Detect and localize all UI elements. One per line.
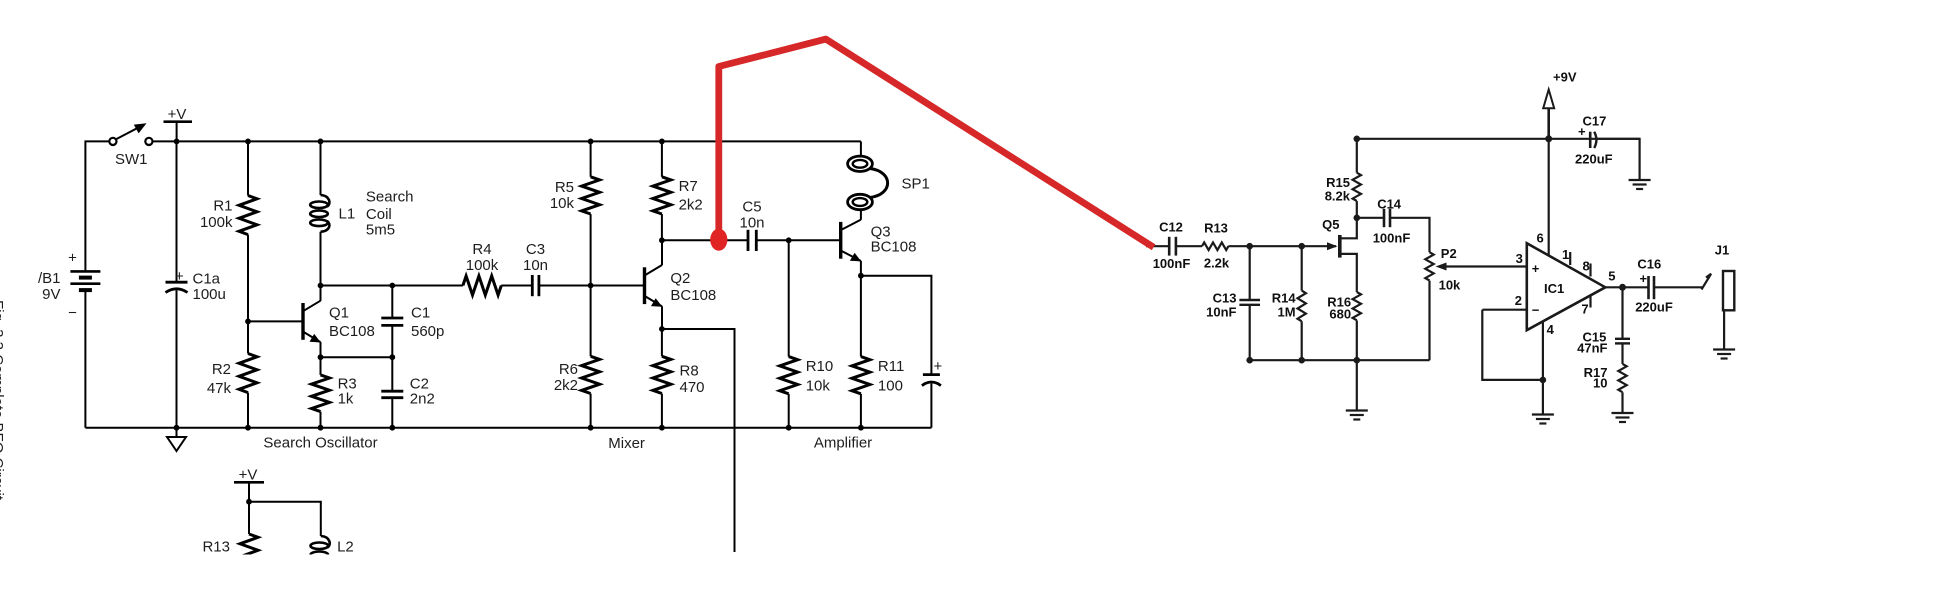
svg-text:+: + xyxy=(1532,261,1540,276)
svg-text:BC108: BC108 xyxy=(871,239,917,256)
svg-text:560p: 560p xyxy=(411,323,444,340)
svg-text:6: 6 xyxy=(1537,230,1544,245)
svg-text:2.2k: 2.2k xyxy=(1204,255,1230,270)
wire top rail (right circuit) xyxy=(1357,138,1640,140)
resistor R13 (partial, cut off) xyxy=(248,502,250,534)
svg-text:1: 1 xyxy=(1562,247,1569,262)
svg-text:Amplifier: Amplifier xyxy=(814,435,872,452)
pin 2 xyxy=(1482,309,1527,311)
svg-text:100nF: 100nF xyxy=(1153,256,1191,271)
node junction C13 xyxy=(1246,243,1253,250)
pin 1 tick xyxy=(1569,252,1571,265)
capacitor C14 xyxy=(1357,217,1384,219)
capacitor C16 xyxy=(1647,276,1650,299)
resistor R4 xyxy=(463,276,501,295)
svg-text:8.2k: 8.2k xyxy=(1325,189,1351,204)
capacitor C3 xyxy=(531,275,534,296)
wire battery bottom to rail xyxy=(84,291,86,428)
inductor L2 (partial, cut off) xyxy=(321,536,330,548)
svg-text:3: 3 xyxy=(1516,251,1523,266)
svg-text:100k: 100k xyxy=(200,214,233,231)
battery /B1 9V xyxy=(70,271,100,290)
svg-text:R13: R13 xyxy=(1204,221,1228,236)
capacitor C15 xyxy=(1621,287,1623,339)
svg-text:−: − xyxy=(1532,303,1540,318)
resistor R3 xyxy=(320,357,322,375)
svg-text:Mixer: Mixer xyxy=(608,435,645,452)
capacitor C17 xyxy=(1589,132,1592,148)
resistor R7 xyxy=(659,139,665,145)
node +V supply symbol (lower) xyxy=(234,481,264,484)
svg-text:C17: C17 xyxy=(1583,113,1607,128)
svg-text:BC108: BC108 xyxy=(329,323,375,340)
switch SW1 xyxy=(109,138,152,145)
svg-text:4: 4 xyxy=(1547,322,1555,337)
svg-text:R7: R7 xyxy=(679,178,698,195)
svg-text:R11: R11 xyxy=(878,358,904,375)
capacitor C12 xyxy=(1168,237,1171,256)
svg-text:47k: 47k xyxy=(207,380,232,397)
svg-text:220uF: 220uF xyxy=(1575,152,1613,167)
svg-text:C1: C1 xyxy=(411,304,430,321)
resistor R11 xyxy=(860,276,862,357)
transistor Q5 (FET) xyxy=(1327,242,1338,250)
red annotation wire xyxy=(719,39,1154,247)
svg-text:+: + xyxy=(934,358,943,375)
wire C3 to Q2 base xyxy=(539,285,643,287)
resistor R8 xyxy=(661,329,663,356)
svg-text:C3: C3 xyxy=(526,241,545,258)
svg-text:100: 100 xyxy=(878,377,903,394)
svg-text:1M: 1M xyxy=(1278,304,1296,319)
svg-text:+: + xyxy=(175,268,184,285)
node junction R15/C14/Q5 drain xyxy=(1354,215,1361,222)
svg-text:100k: 100k xyxy=(466,257,499,274)
resistor R5 xyxy=(588,139,594,145)
svg-text:SP1: SP1 xyxy=(902,176,930,193)
wire R13 to Q5 gate xyxy=(1228,245,1336,247)
svg-text:8: 8 xyxy=(1583,258,1590,273)
node +V supply symbol xyxy=(164,120,193,123)
junction xyxy=(174,139,180,145)
svg-text:C13: C13 xyxy=(1213,290,1237,305)
wire Q1 emitter rail xyxy=(318,354,324,360)
svg-text:/B1: /B1 xyxy=(38,270,61,287)
svg-text:100nF: 100nF xyxy=(1373,231,1411,246)
wire C14 to P2 xyxy=(1390,218,1430,252)
speaker SP1 xyxy=(860,141,862,156)
node +9V supply arrow xyxy=(1545,135,1552,142)
ground (below IC1) xyxy=(1532,413,1554,415)
svg-text:+V: +V xyxy=(168,106,187,123)
svg-text:470: 470 xyxy=(680,379,705,396)
wire Q3 emitter node xyxy=(858,273,864,279)
red node dot xyxy=(710,229,727,251)
svg-text:Q5: Q5 xyxy=(1322,217,1339,232)
wire Q2 collector node xyxy=(659,237,665,243)
wire left rail xyxy=(84,141,87,271)
svg-text:R10: R10 xyxy=(806,358,834,375)
svg-text:R14: R14 xyxy=(1272,290,1297,305)
svg-text:+: + xyxy=(1640,271,1648,286)
transistor Q1 BC108 xyxy=(301,303,304,340)
svg-text:R5: R5 xyxy=(555,179,574,196)
resistor R10 xyxy=(788,240,790,356)
svg-text:Search: Search xyxy=(366,189,414,206)
wire collector/base rail y=285.5 xyxy=(318,283,324,289)
svg-text:Fig. 3.3 Complete BFO Circuit: Fig. 3.3 Complete BFO Circuit xyxy=(0,300,6,501)
resistor R17 10 xyxy=(1621,343,1623,364)
svg-text:5: 5 xyxy=(1608,269,1615,284)
svg-text:J1: J1 xyxy=(1715,242,1729,257)
svg-text:L2: L2 xyxy=(337,539,354,556)
svg-text:680: 680 xyxy=(1329,307,1351,322)
pin 6 xyxy=(1548,139,1550,256)
transistor Q2 BC108 xyxy=(643,267,646,304)
ground (right of C17) xyxy=(1629,179,1651,181)
svg-text:2k2: 2k2 xyxy=(679,197,703,214)
jack J1 body xyxy=(1723,271,1734,310)
svg-text:+9V: +9V xyxy=(1553,69,1577,84)
svg-text:10k: 10k xyxy=(550,195,575,212)
resistor R2 xyxy=(245,319,251,325)
svg-text:Q2: Q2 xyxy=(670,270,690,287)
svg-text:BC108: BC108 xyxy=(670,287,716,304)
svg-text:IC1: IC1 xyxy=(1544,281,1564,296)
svg-text:C12: C12 xyxy=(1159,220,1183,235)
capacitor C13 xyxy=(1249,246,1251,300)
svg-text:10n: 10n xyxy=(523,257,548,274)
svg-text:Search Oscillator: Search Oscillator xyxy=(263,435,377,452)
svg-text:R6: R6 xyxy=(559,361,578,378)
svg-text:R4: R4 xyxy=(472,241,491,258)
svg-text:10k: 10k xyxy=(1439,278,1461,293)
node junction R14 xyxy=(1298,243,1305,250)
svg-text:+: + xyxy=(68,250,77,267)
wire bottom rail (right circuit) xyxy=(1250,359,1430,361)
wire C5 to Q3 base xyxy=(756,239,839,241)
capacitor C1 xyxy=(391,286,393,319)
svg-text:R2: R2 xyxy=(212,361,231,378)
resistor R1 xyxy=(245,139,251,145)
svg-text:C1a: C1a xyxy=(193,271,221,288)
resistor R15 8.2k xyxy=(1354,136,1361,143)
svg-text:7: 7 xyxy=(1581,301,1588,316)
svg-text:10k: 10k xyxy=(806,378,831,395)
wire C17 to ground xyxy=(1597,139,1640,180)
resistor R14 1M xyxy=(1301,246,1303,290)
caption fragment (rotated, clipped at left edge) xyxy=(0,300,6,501)
wire feedback pin2 to pin4 line xyxy=(1482,310,1543,380)
ground (below R16) xyxy=(1356,360,1358,410)
svg-text:C16: C16 xyxy=(1637,257,1661,272)
pin 8 tick xyxy=(1589,264,1591,277)
potentiometer P2 10k xyxy=(1425,252,1433,280)
resistor R16 680 xyxy=(1356,291,1358,292)
ground (below R17) xyxy=(1612,412,1634,414)
resistor R6 xyxy=(590,286,592,357)
svg-text:47nF: 47nF xyxy=(1577,341,1607,356)
svg-text:−: − xyxy=(68,305,77,322)
svg-text:R13: R13 xyxy=(202,539,230,556)
svg-text:R8: R8 xyxy=(680,363,699,380)
svg-text:R1: R1 xyxy=(213,198,232,215)
capacitor C5 xyxy=(747,230,750,251)
pin 5 output xyxy=(1605,286,1648,288)
wire Q1 base xyxy=(248,320,302,322)
wire R4 to C3 xyxy=(501,285,532,287)
svg-text:2k2: 2k2 xyxy=(554,377,578,394)
wire C12 to R13 xyxy=(1176,245,1202,247)
transistor Q3 BC108 xyxy=(839,222,842,259)
svg-text:10nF: 10nF xyxy=(1206,304,1236,319)
svg-text:100u: 100u xyxy=(193,286,226,303)
wire bottom rail xyxy=(85,427,931,429)
svg-text:2: 2 xyxy=(1515,293,1522,308)
capacitor C1a xyxy=(176,141,178,282)
wire lower +V to L2 xyxy=(249,502,321,536)
svg-text:5m5: 5m5 xyxy=(366,222,395,239)
svg-text:2n2: 2n2 xyxy=(410,390,435,407)
svg-text:Q1: Q1 xyxy=(329,304,349,321)
pin 4 to ground xyxy=(1542,322,1544,415)
svg-text:C14: C14 xyxy=(1377,197,1402,212)
pin 7 tick xyxy=(1589,295,1591,308)
svg-text:1k: 1k xyxy=(338,390,354,407)
svg-text:C5: C5 xyxy=(742,198,761,215)
ground (below J1) xyxy=(1713,348,1735,350)
resistor R13 2.2k xyxy=(1202,242,1228,250)
ground xyxy=(176,428,178,437)
svg-text:SW1: SW1 xyxy=(115,151,148,168)
wire Q2 emitter to R8 and down-line xyxy=(659,326,665,332)
wire top rail xyxy=(86,140,109,142)
white cutoff mask at bottom xyxy=(140,555,820,616)
svg-text:220uF: 220uF xyxy=(1635,300,1673,315)
jack J1 plug tip xyxy=(1702,274,1712,290)
wire C16 to jack xyxy=(1654,286,1703,288)
svg-text:10: 10 xyxy=(1593,375,1607,390)
svg-text:L1: L1 xyxy=(339,206,356,223)
capacitor C2 xyxy=(391,357,393,391)
svg-text:+V: +V xyxy=(239,467,258,484)
inductor L1 xyxy=(318,139,324,145)
svg-text:10n: 10n xyxy=(739,215,764,232)
op-amp IC1 xyxy=(1527,243,1606,330)
capacitor (electrolytic, unlabeled) xyxy=(923,373,940,376)
svg-text:9V: 9V xyxy=(42,286,60,303)
wire input to C12 xyxy=(1146,245,1169,247)
svg-text:P2: P2 xyxy=(1441,246,1457,261)
